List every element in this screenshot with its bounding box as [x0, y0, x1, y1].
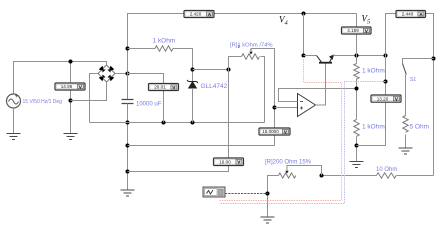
- svg-text:14.96: 14.96: [61, 84, 73, 89]
- node dot bridge AC2: [69, 99, 73, 103]
- svg-text:15 V/50 Hz/1 Deg: 15 V/50 Hz/1 Deg: [23, 99, 63, 105]
- transistor Q1: [317, 55, 334, 63]
- svg-text:4.189: 4.189: [347, 28, 359, 33]
- svg-text:[R]200 Ohm 15%: [R]200 Ohm 15%: [265, 160, 312, 166]
- potentiometer R7 200 Ohm body: [279, 173, 296, 178]
- resistor R6 10 Ohm: [377, 173, 397, 178]
- wire bridge left corner to ground rail: [90, 74, 99, 123]
- wire V5 meter column: [356, 14, 358, 56]
- wire ground rail: [90, 122, 265, 124]
- svg-text:1 kOhm: 1 kOhm: [362, 124, 385, 131]
- wire zener node to pot: [193, 69, 229, 71]
- ground G3: [121, 190, 135, 196]
- ground G2: [64, 134, 78, 140]
- ammeter box 2.440: [396, 11, 426, 18]
- potentiometer R7 wiper: [285, 166, 321, 176]
- svg-text:1 kOhm: 1 kOhm: [153, 38, 176, 45]
- node dot emitter-divider: [355, 54, 359, 58]
- ground G4: [261, 217, 275, 223]
- voltmeter box 16.0000: [259, 128, 290, 135]
- wire top-left horizontal from source to bridge top: [14, 62, 107, 95]
- node dot main column at bridge output: [126, 72, 130, 76]
- svg-text:GLL4742: GLL4742: [201, 83, 228, 90]
- node dot rail at 20.01 meter: [162, 121, 166, 125]
- wire op-amp output to base: [316, 64, 326, 106]
- zener diode D5: [187, 80, 198, 88]
- svg-text:V5: V5: [362, 14, 372, 26]
- node dot feedback tap: [355, 87, 359, 91]
- svg-text:10000 uF: 10000 uF: [136, 102, 162, 108]
- scope probe icon: [203, 187, 225, 197]
- svg-text:2.420: 2.420: [190, 12, 202, 17]
- op-amp U1: [298, 94, 316, 117]
- wire bridge right corner to main DC column: [115, 73, 128, 75]
- wire pot left lead: [229, 57, 242, 70]
- node dot probe output: [384, 80, 388, 84]
- voltmeter box 14.96: [55, 83, 85, 90]
- wire zener anode to rail: [192, 88, 194, 123]
- node dot divider bottom: [355, 144, 359, 148]
- wire bottom load line: [322, 175, 434, 177]
- svg-text:10 Ohm: 10 Ohm: [376, 167, 397, 173]
- voltmeter box 4.189: [342, 27, 372, 34]
- bridge diode top-left: [100, 67, 106, 73]
- switch S1 blade: [403, 64, 407, 75]
- bridge diode bottom-right: [108, 75, 114, 81]
- resistor R1 1kOhm zigzag: [155, 46, 173, 51]
- wire main DC column upper: [128, 14, 357, 100]
- ground G6: [399, 148, 413, 154]
- wire y145 sense line: [128, 145, 275, 147]
- svg-text:5 Ohm: 5 Ohm: [410, 124, 430, 131]
- probe wire channel A pink: [220, 57, 342, 201]
- node dot y145: [126, 144, 130, 148]
- wire collector lead: [304, 55, 317, 57]
- resistor R3 1kOhm: [354, 64, 359, 80]
- node dot rail at zener: [191, 121, 195, 125]
- wire pot right lead to rail end: [261, 57, 265, 123]
- node dot top rail at transistor column: [302, 12, 306, 16]
- wire ammeter XMM2 loop: [386, 14, 434, 176]
- svg-text:[R]1 kOhm /74%: [R]1 kOhm /74%: [230, 43, 273, 49]
- svg-text:16.0000: 16.0000: [262, 129, 279, 134]
- wire voltmeter V1 column: [70, 62, 72, 134]
- svg-text:V4: V4: [279, 15, 289, 27]
- bridge rectifier D1 diamond: [98, 65, 115, 82]
- ammeter box 2.420: [184, 11, 214, 18]
- wire collector feed: [303, 14, 305, 56]
- wire pot2 left lead to ground: [268, 176, 279, 218]
- node dot emitter-output: [384, 54, 388, 58]
- node dot 1k branch: [126, 47, 130, 51]
- wire divider column upper: [356, 56, 358, 162]
- voltmeter box 20.01: [149, 84, 179, 91]
- node dot pot left: [227, 68, 231, 72]
- wire 20.01 voltmeter branch: [128, 74, 164, 123]
- svg-text:S1: S1: [410, 77, 416, 83]
- bridge diode bottom-left: [100, 75, 106, 81]
- node dot collector: [302, 54, 306, 58]
- node dot pot2 right: [320, 174, 324, 178]
- capacitor C1 plates: [122, 100, 134, 104]
- wire emitter rail: [333, 55, 386, 57]
- probe wire channel B lavender: [221, 82, 386, 204]
- node dot load branch: [432, 57, 436, 61]
- node dot plus input: [273, 106, 277, 110]
- svg-text:A: A: [208, 12, 212, 18]
- svg-text:2.440: 2.440: [402, 12, 414, 17]
- wire plus input: [275, 107, 298, 109]
- wire source bottom lead: [13, 108, 15, 134]
- node dot scope ground: [266, 192, 270, 196]
- wire main column lower / ground stem: [127, 104, 129, 191]
- wire output meter column: [357, 56, 386, 146]
- ground G5: [350, 162, 364, 168]
- svg-text:13.20: 13.20: [377, 96, 389, 101]
- node dot y171: [126, 170, 130, 174]
- wire zener column down through 16.00 meter: [128, 70, 229, 172]
- wire switch branch: [403, 59, 434, 64]
- AC source V1: [7, 94, 21, 108]
- wire pot wiper to op-amp plus input: [251, 49, 275, 146]
- svg-text:20.01: 20.01: [154, 85, 166, 90]
- resistor R4 1kOhm: [354, 120, 359, 137]
- wire 1k feed branch: [128, 49, 193, 82]
- potentiometer R2 wiper arrow: [249, 49, 252, 55]
- wire op-amp minus feedback: [279, 89, 357, 102]
- wire scope ground lead: [225, 193, 268, 195]
- svg-text:1 kOhm: 1 kOhm: [362, 68, 385, 75]
- resistor R5 5 Ohm: [403, 116, 408, 133]
- voltmeter box 13.20: [371, 95, 401, 103]
- ground G1: [7, 134, 21, 140]
- node dot source-top rail: [69, 60, 73, 64]
- svg-text:A: A: [419, 12, 423, 18]
- node dot zener ref: [191, 68, 195, 72]
- wire to bridge bottom corner: [71, 82, 107, 101]
- bridge diode top-right: [108, 67, 114, 73]
- potentiometer R2 body: [242, 54, 260, 59]
- svg-text:16.00: 16.00: [219, 159, 231, 164]
- wire switch to R5: [405, 75, 407, 149]
- voltmeter box 16.00: [214, 158, 244, 166]
- node dot rail-cap: [126, 121, 130, 125]
